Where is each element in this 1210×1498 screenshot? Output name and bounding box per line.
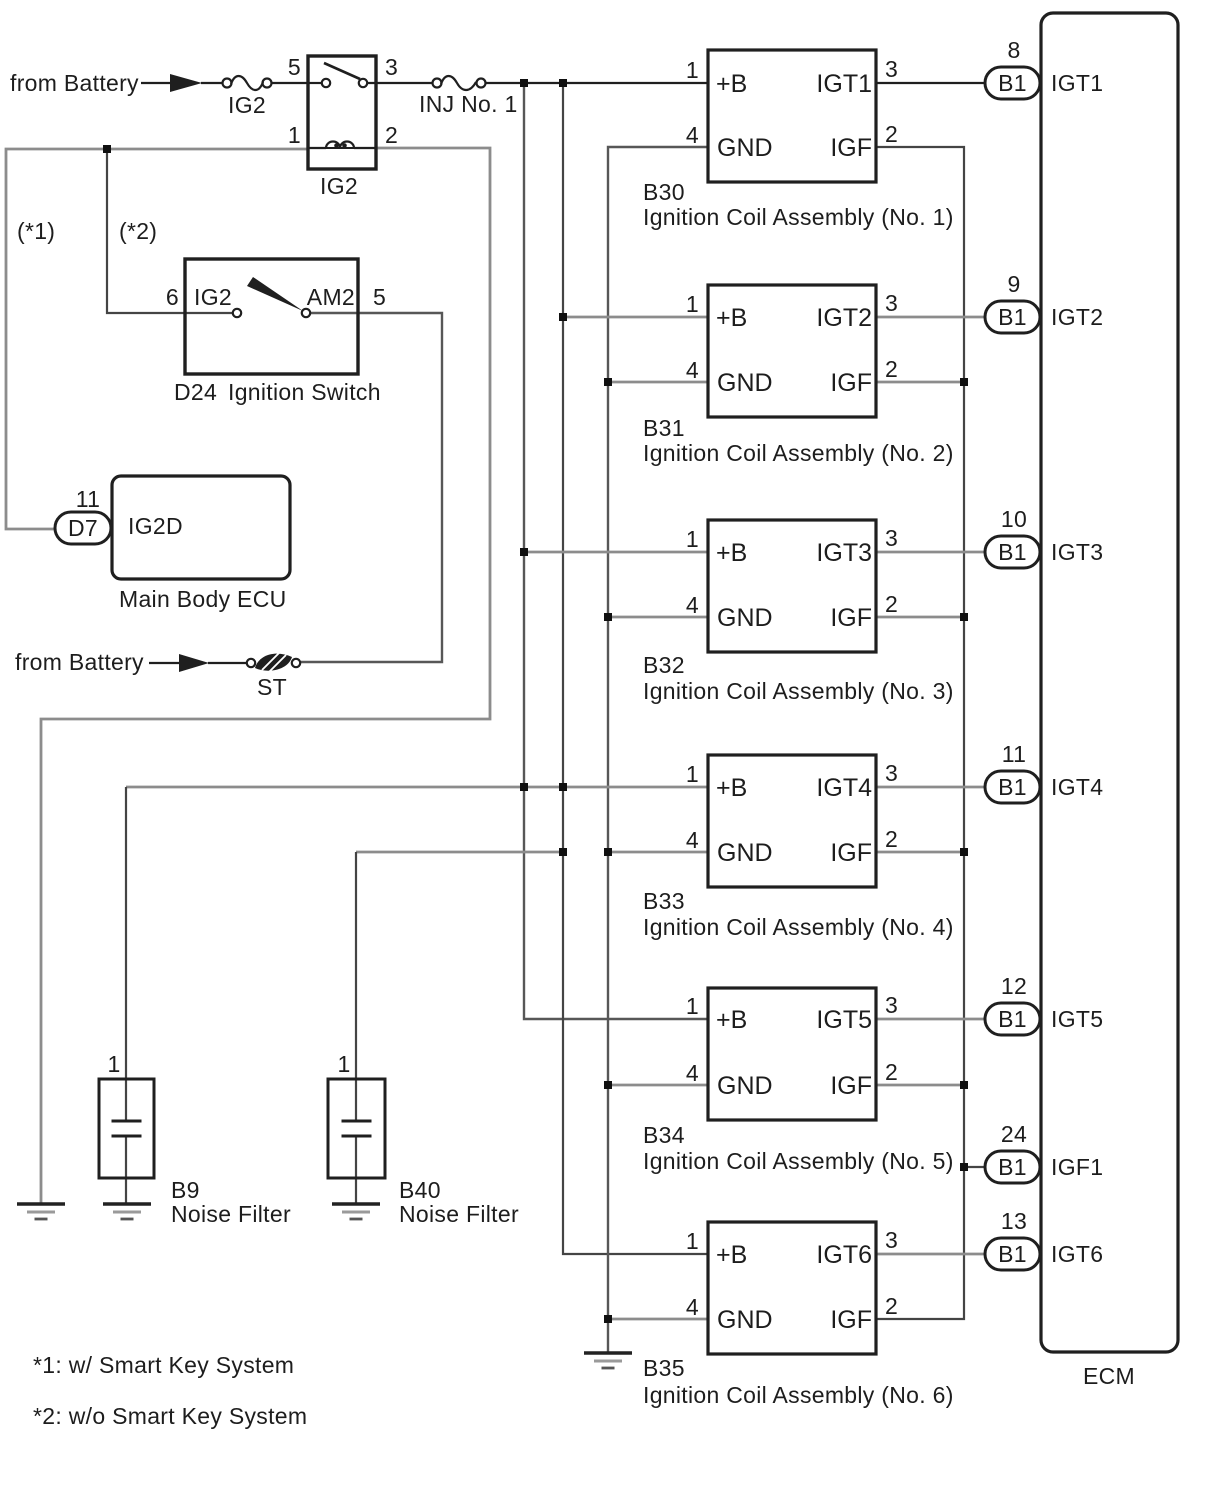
svg-text:2: 2: [885, 1293, 898, 1319]
svg-text:D7: D7: [68, 515, 98, 541]
svg-text:B1: B1: [998, 70, 1027, 96]
svg-text:3: 3: [885, 1227, 898, 1253]
svg-text:AM2: AM2: [307, 284, 355, 310]
svg-text:GND: GND: [717, 604, 773, 632]
svg-text:IGT5: IGT5: [816, 1006, 872, 1034]
svg-text:1: 1: [686, 761, 699, 787]
svg-text:1: 1: [686, 57, 699, 83]
svg-text:4: 4: [686, 1060, 699, 1086]
svg-text:*2: w/o Smart Key System: *2: w/o Smart Key System: [33, 1403, 307, 1429]
svg-text:B1: B1: [998, 1154, 1027, 1180]
svg-text:3: 3: [885, 525, 898, 551]
svg-text:5: 5: [288, 54, 301, 80]
svg-text:1: 1: [686, 291, 699, 317]
svg-text:IGF1: IGF1: [1051, 1154, 1103, 1180]
svg-text:IGT4: IGT4: [1051, 774, 1103, 800]
svg-text:13: 13: [1001, 1208, 1027, 1234]
svg-text:2: 2: [885, 826, 898, 852]
svg-text:IG2: IG2: [228, 92, 266, 118]
svg-text:B1: B1: [998, 304, 1027, 330]
svg-text:IG2: IG2: [194, 284, 232, 310]
svg-text:24: 24: [1001, 1121, 1027, 1147]
svg-text:INJ No. 1: INJ No. 1: [419, 91, 518, 117]
svg-text:2: 2: [885, 591, 898, 617]
svg-text:+B: +B: [716, 304, 747, 332]
svg-text:GND: GND: [717, 1072, 773, 1100]
svg-text:B9: B9: [171, 1177, 200, 1203]
svg-text:+B: +B: [716, 70, 747, 98]
svg-text:from Battery: from Battery: [15, 649, 144, 675]
svg-text:+B: +B: [716, 1006, 747, 1034]
svg-text:GND: GND: [717, 839, 773, 867]
svg-text:ST: ST: [257, 674, 287, 700]
svg-text:Main Body ECU: Main Body ECU: [119, 586, 287, 612]
svg-text:Noise Filter: Noise Filter: [399, 1201, 519, 1227]
svg-text:IG2D: IG2D: [128, 513, 183, 539]
svg-text:1: 1: [288, 122, 301, 148]
svg-text:B30: B30: [643, 179, 685, 205]
svg-text:IGF: IGF: [830, 1072, 872, 1100]
svg-text:8: 8: [1007, 37, 1020, 63]
svg-text:B35: B35: [643, 1355, 685, 1381]
svg-text:IG2: IG2: [320, 173, 358, 199]
svg-text:B31: B31: [643, 415, 685, 441]
svg-text:B32: B32: [643, 652, 685, 678]
svg-text:B1: B1: [998, 774, 1027, 800]
svg-text:IGF: IGF: [830, 604, 872, 632]
svg-text:11: 11: [76, 486, 100, 512]
svg-text:4: 4: [686, 827, 699, 853]
svg-text:+B: +B: [716, 774, 747, 802]
svg-text:(*1): (*1): [17, 218, 55, 244]
svg-text:6: 6: [166, 284, 179, 310]
svg-text:from Battery: from Battery: [10, 70, 139, 96]
svg-text:1: 1: [686, 526, 699, 552]
svg-text:2: 2: [385, 122, 398, 148]
svg-text:Ignition Coil Assembly (No. 2): Ignition Coil Assembly (No. 2): [643, 440, 954, 466]
svg-text:GND: GND: [717, 134, 773, 162]
svg-text:B1: B1: [998, 539, 1027, 565]
svg-text:2: 2: [885, 121, 898, 147]
svg-text:IGT3: IGT3: [1051, 539, 1103, 565]
svg-text:3: 3: [885, 56, 898, 82]
svg-text:*1: w/ Smart Key System: *1: w/ Smart Key System: [33, 1352, 294, 1378]
svg-text:1: 1: [686, 993, 699, 1019]
svg-text:IGT1: IGT1: [816, 70, 872, 98]
svg-text:Ignition Switch: Ignition Switch: [228, 379, 381, 405]
svg-text:12: 12: [1001, 973, 1027, 999]
svg-text:1: 1: [107, 1051, 120, 1077]
svg-text:3: 3: [385, 54, 398, 80]
svg-text:IGT6: IGT6: [1051, 1241, 1103, 1267]
svg-text:9: 9: [1007, 271, 1020, 297]
svg-text:B1: B1: [998, 1006, 1027, 1032]
svg-text:IGT4: IGT4: [816, 774, 872, 802]
svg-text:1: 1: [337, 1051, 350, 1077]
svg-text:IGT2: IGT2: [1051, 304, 1103, 330]
svg-text:IGF: IGF: [830, 1306, 872, 1334]
svg-text:2: 2: [885, 356, 898, 382]
svg-text:IGF: IGF: [830, 369, 872, 397]
svg-text:Ignition Coil Assembly (No. 4): Ignition Coil Assembly (No. 4): [643, 914, 954, 940]
svg-text:IGT6: IGT6: [816, 1241, 872, 1269]
svg-text:(*2): (*2): [119, 218, 157, 244]
svg-text:IGF: IGF: [830, 839, 872, 867]
svg-text:3: 3: [885, 290, 898, 316]
svg-text:Ignition Coil Assembly (No. 5): Ignition Coil Assembly (No. 5): [643, 1148, 954, 1174]
svg-text:Ignition Coil Assembly (No. 1): Ignition Coil Assembly (No. 1): [643, 204, 954, 230]
svg-text:IGT3: IGT3: [816, 539, 872, 567]
svg-text:IGF: IGF: [830, 134, 872, 162]
svg-text:3: 3: [885, 992, 898, 1018]
svg-text:1: 1: [686, 1228, 699, 1254]
svg-text:IGT5: IGT5: [1051, 1006, 1103, 1032]
svg-text:2: 2: [885, 1059, 898, 1085]
svg-text:4: 4: [686, 1294, 699, 1320]
svg-text:5: 5: [373, 284, 386, 310]
svg-text:4: 4: [686, 357, 699, 383]
svg-text:GND: GND: [717, 1306, 773, 1334]
svg-text:+B: +B: [716, 1241, 747, 1269]
svg-text:4: 4: [686, 122, 699, 148]
svg-text:Noise Filter: Noise Filter: [171, 1201, 291, 1227]
svg-text:10: 10: [1001, 506, 1027, 532]
svg-text:3: 3: [885, 760, 898, 786]
svg-text:+B: +B: [716, 539, 747, 567]
svg-text:ECM: ECM: [1083, 1363, 1135, 1389]
svg-text:B33: B33: [643, 888, 685, 914]
svg-text:11: 11: [1002, 741, 1026, 767]
svg-text:B1: B1: [998, 1241, 1027, 1267]
svg-text:B34: B34: [643, 1122, 685, 1148]
svg-text:GND: GND: [717, 369, 773, 397]
svg-text:IGT1: IGT1: [1051, 70, 1103, 96]
svg-text:IGT2: IGT2: [816, 304, 872, 332]
svg-text:D24: D24: [174, 379, 217, 405]
svg-text:B40: B40: [399, 1177, 441, 1203]
svg-text:Ignition Coil Assembly (No. 3): Ignition Coil Assembly (No. 3): [643, 678, 954, 704]
svg-text:Ignition Coil Assembly (No. 6): Ignition Coil Assembly (No. 6): [643, 1382, 954, 1408]
svg-text:4: 4: [686, 592, 699, 618]
